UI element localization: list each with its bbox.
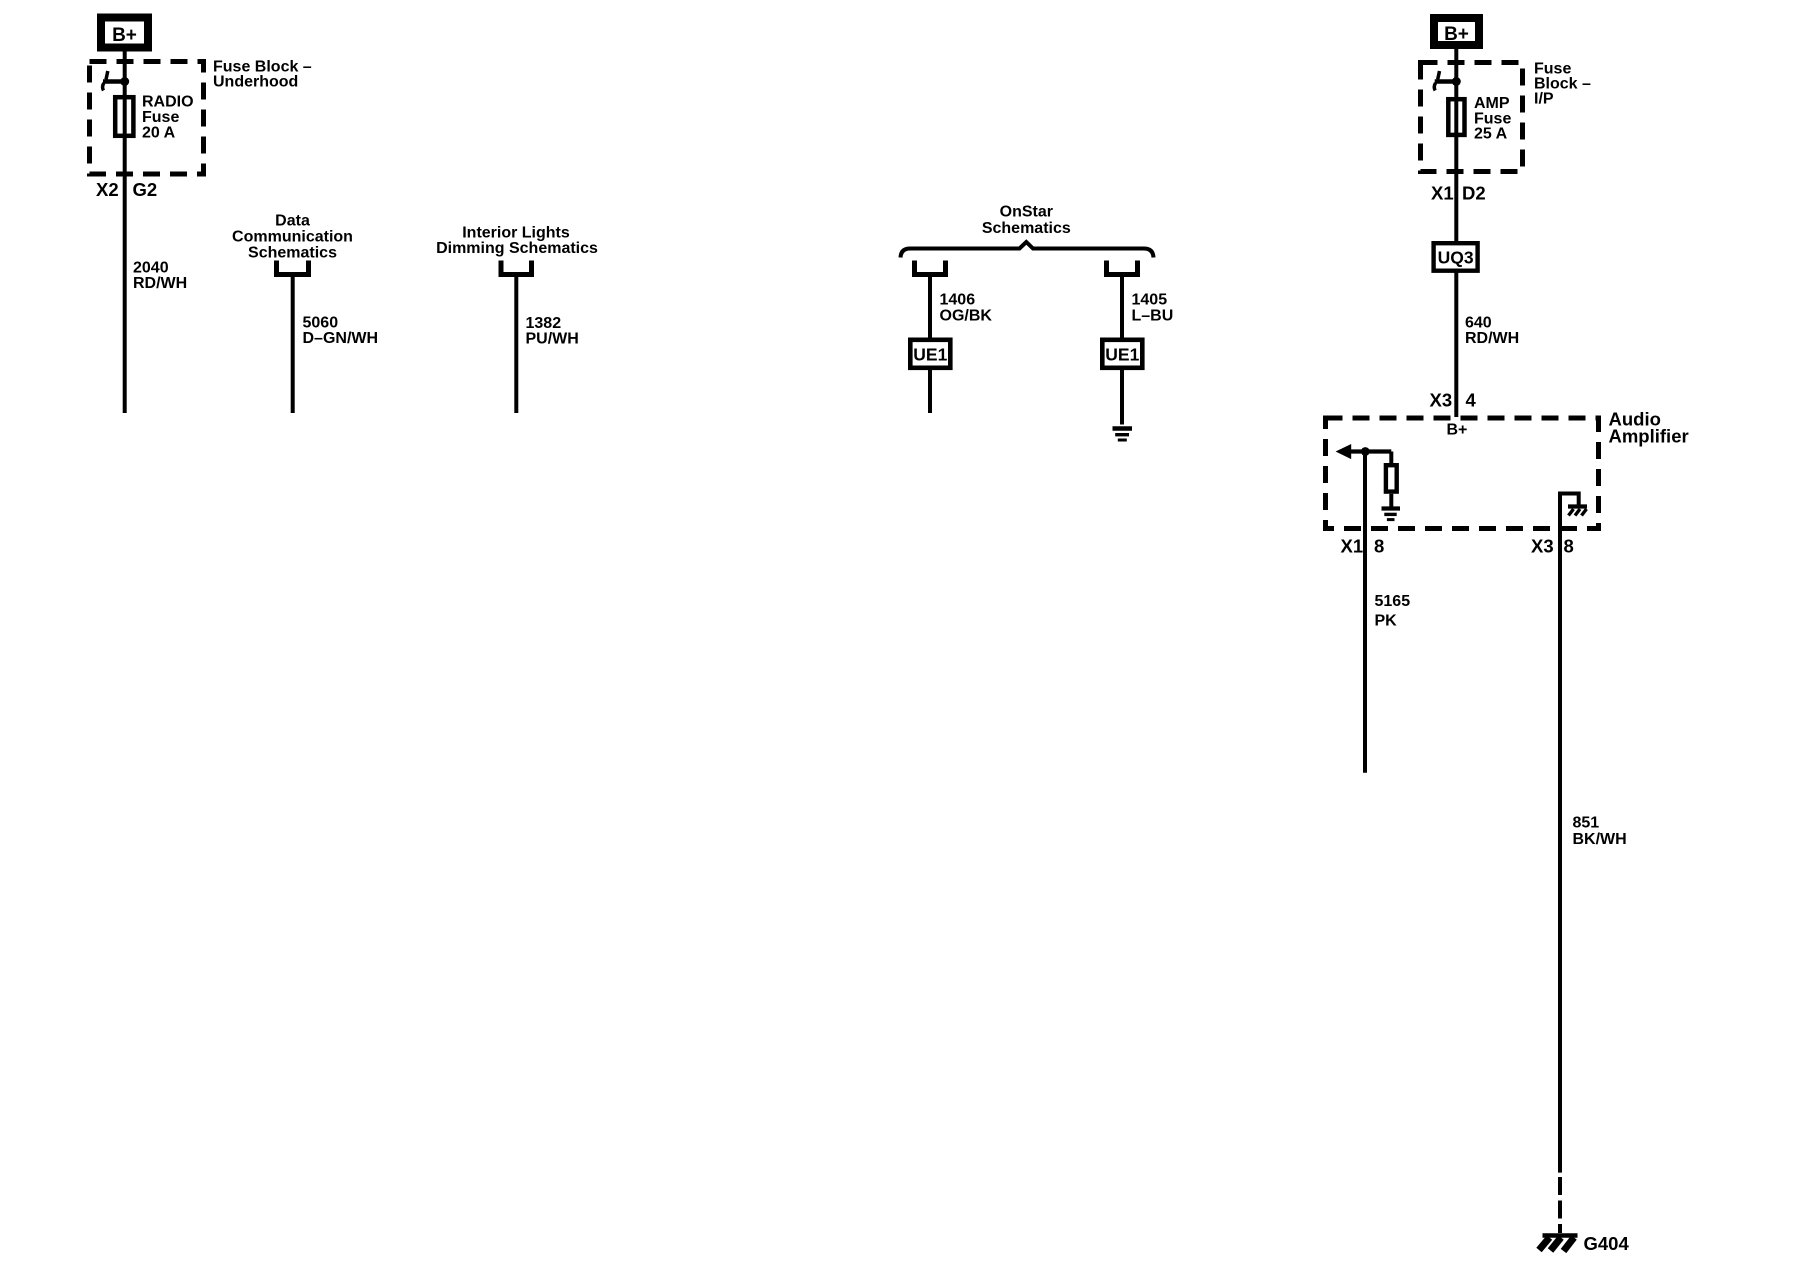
label Audio Amplifier [1609, 409, 1689, 447]
pin label X3 4 [1430, 390, 1477, 411]
option box UE1 (left) [910, 340, 950, 368]
off-page terminal (OnStar left) [915, 261, 946, 275]
svg-text:RD/WH: RD/WH [133, 275, 187, 292]
wire 851 BK/WH [1558, 531, 1562, 1173]
svg-text:Dimming Schematics: Dimming Schematics [436, 240, 598, 257]
svg-text:2040: 2040 [133, 260, 169, 277]
fuse RADIO 20A [115, 94, 193, 142]
label Fuse Block Underhood [213, 59, 312, 91]
svg-text:D2: D2 [1462, 183, 1486, 204]
wire amp X1-8 down (5165 PK) [1363, 452, 1367, 773]
ground G404 [1539, 1233, 1629, 1254]
svg-text:Fuse: Fuse [142, 109, 179, 126]
svg-text:851: 851 [1573, 815, 1600, 832]
wire UE1 to radio X2-7 [928, 368, 932, 413]
off-page terminal (data comm) [277, 261, 309, 275]
svg-text:BK/WH: BK/WH [1573, 831, 1627, 848]
svg-text:UQ3: UQ3 [1438, 248, 1474, 268]
wire UE1 to radio X2-15 [1120, 368, 1124, 425]
svg-text:8: 8 [1374, 536, 1384, 557]
fuse block underhood box [90, 62, 204, 175]
svg-text:X1: X1 [1431, 183, 1454, 204]
wire B+ to fuse block [123, 52, 127, 82]
label Data Communication Schematics [232, 213, 353, 262]
svg-text:B+: B+ [1444, 24, 1469, 45]
audio amplifier box [1326, 418, 1599, 529]
wire 5060 D-GN/WH [291, 277, 295, 413]
svg-text:OnStar: OnStar [1000, 204, 1053, 221]
wire through fuse [123, 82, 127, 175]
pin label X3 8 (amp) [1531, 536, 1574, 557]
svg-text:L–BU: L–BU [1132, 308, 1174, 325]
fuse holder clip (right) [1434, 71, 1457, 91]
wire fuse to UQ3 [1454, 172, 1458, 244]
svg-text:B+: B+ [1447, 422, 1468, 439]
svg-text:G2: G2 [133, 179, 158, 200]
resistor (amp) [1386, 452, 1397, 507]
B+ power symbol (left) [101, 18, 148, 48]
svg-text:X3: X3 [1430, 390, 1453, 411]
option box UE1 (right) [1102, 340, 1142, 368]
svg-text:5060: 5060 [303, 315, 339, 332]
wire 1405 L-BU [1120, 277, 1124, 339]
svg-text:X1: X1 [1341, 536, 1364, 557]
earth ground (amp resistor) [1382, 509, 1401, 520]
svg-text:X2: X2 [96, 179, 119, 200]
junction node (right fuse block) [1452, 77, 1461, 86]
label OnStar Schematics [982, 204, 1071, 238]
connector label X1 D2 [1431, 183, 1486, 204]
amp ground L-wire [1560, 494, 1579, 532]
svg-text:Amplifier: Amplifier [1609, 426, 1689, 447]
svg-text:20 A: 20 A [142, 125, 176, 142]
svg-text:PK: PK [1375, 613, 1398, 630]
chassis ground (amp right) [1568, 507, 1587, 516]
svg-text:1405: 1405 [1132, 292, 1168, 309]
brace (OnStar) [901, 242, 1154, 258]
svg-text:G404: G404 [1584, 1233, 1630, 1254]
option code UQ3 [1434, 243, 1478, 271]
off-page terminal (OnStar right) [1107, 261, 1138, 275]
svg-text:UE1: UE1 [913, 345, 947, 365]
fuse AMP 25A [1448, 95, 1511, 143]
svg-text:D–GN/WH: D–GN/WH [303, 330, 379, 347]
svg-text:8: 8 [1564, 536, 1574, 557]
fuse holder clip (left) [103, 71, 126, 91]
svg-text:25 A: 25 A [1474, 126, 1508, 143]
svg-text:640: 640 [1465, 315, 1492, 332]
svg-text:1382: 1382 [526, 315, 562, 332]
svg-text:Schematics: Schematics [982, 220, 1071, 237]
B+ power symbol (right) [1434, 18, 1479, 45]
svg-text:UE1: UE1 [1105, 345, 1139, 365]
wire 2040 RD/WH [123, 174, 127, 413]
svg-text:Communication: Communication [232, 229, 353, 246]
pin label X1 8 (amp) [1341, 536, 1385, 557]
junction node (amp) [1361, 447, 1370, 456]
off-page terminal (dimming) [501, 261, 532, 275]
wire through AMP fuse [1454, 82, 1458, 172]
fuse block IP box [1421, 63, 1523, 172]
svg-text:X3: X3 [1531, 536, 1554, 557]
svg-text:Underhood: Underhood [213, 74, 298, 91]
svg-text:B+: B+ [112, 25, 137, 46]
svg-text:5165: 5165 [1375, 593, 1411, 610]
wire B+ to fuse block IP [1454, 49, 1458, 82]
label Fuse Block IP [1534, 61, 1591, 108]
svg-text:RD/WH: RD/WH [1465, 330, 1519, 347]
amp supply arrow [1336, 444, 1392, 459]
connector label X2 G2 [96, 179, 157, 200]
earth ground (radio pin 15) [1113, 429, 1133, 441]
wire 1406 OG/BK [928, 277, 932, 339]
label Interior Lights Dimming Schematics [436, 225, 598, 258]
svg-text:PU/WH: PU/WH [526, 331, 579, 348]
wire 1382 PU/WH [514, 277, 518, 413]
svg-text:I/P: I/P [1534, 91, 1554, 108]
junction node (left fuse block) [120, 77, 129, 86]
svg-text:4: 4 [1466, 390, 1477, 411]
svg-text:Schematics: Schematics [248, 245, 337, 262]
svg-text:Interior Lights: Interior Lights [462, 225, 570, 242]
svg-text:Data: Data [275, 213, 310, 230]
svg-text:OG/BK: OG/BK [940, 308, 993, 325]
svg-text:RADIO: RADIO [142, 94, 194, 111]
svg-text:1406: 1406 [940, 292, 976, 309]
wire 640 RD/WH [1454, 271, 1458, 417]
